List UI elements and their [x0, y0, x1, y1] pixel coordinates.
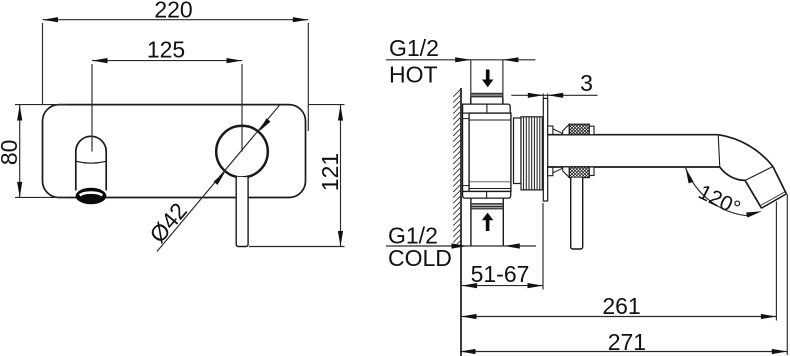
svg-text:220: 220: [154, 0, 192, 23]
svg-text:G1/2: G1/2: [389, 35, 439, 61]
svg-text:51-67: 51-67: [471, 261, 530, 287]
svg-text:80: 80: [0, 140, 22, 166]
svg-text:HOT: HOT: [389, 62, 438, 88]
svg-text:271: 271: [608, 329, 646, 355]
svg-text:3: 3: [580, 70, 593, 96]
svg-text:121: 121: [317, 153, 343, 191]
svg-text:125: 125: [147, 37, 185, 63]
svg-text:261: 261: [602, 293, 640, 319]
svg-text:COLD: COLD: [388, 245, 452, 271]
